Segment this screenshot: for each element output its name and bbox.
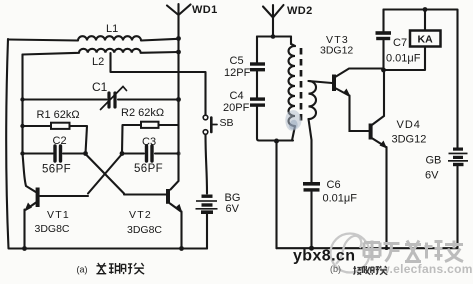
svg-text:3DG8C: 3DG8C [127, 224, 162, 236]
svg-text:0.01μF: 0.01μF [323, 193, 358, 205]
svg-text:0.01μF: 0.01μF [386, 53, 421, 65]
svg-text:C7: C7 [393, 37, 407, 49]
svg-text:56PF: 56PF [134, 163, 163, 175]
svg-text:R2 62kΩ: R2 62kΩ [121, 107, 164, 119]
svg-text:C5: C5 [230, 55, 244, 67]
svg-text:6V: 6V [226, 203, 240, 215]
svg-text:C1: C1 [92, 80, 108, 94]
svg-text:C6: C6 [327, 179, 341, 191]
svg-text:SB: SB [220, 117, 234, 129]
svg-text:WD1: WD1 [192, 4, 218, 16]
svg-text:VT2: VT2 [129, 209, 152, 221]
svg-text:3DG8C: 3DG8C [35, 223, 70, 235]
svg-text:ybx8.cn: ybx8.cn [293, 248, 355, 265]
svg-text:WD2: WD2 [287, 5, 313, 17]
svg-text:C4: C4 [230, 90, 244, 102]
svg-text:3DG12: 3DG12 [392, 134, 427, 146]
svg-text:KA: KA [418, 34, 434, 46]
svg-text:6V: 6V [425, 170, 439, 182]
svg-text:12PF: 12PF [224, 67, 251, 79]
svg-text:L1: L1 [106, 23, 118, 35]
svg-text:56PF: 56PF [42, 164, 71, 176]
svg-text:L2: L2 [92, 56, 104, 68]
svg-text:GB: GB [426, 155, 442, 167]
svg-text:VD4: VD4 [397, 119, 421, 131]
svg-text:(a): (a) [77, 265, 88, 275]
svg-text:VT1: VT1 [47, 209, 70, 221]
svg-text:3DG12: 3DG12 [320, 45, 353, 57]
svg-text:C2: C2 [53, 135, 67, 147]
svg-text:20PF: 20PF [223, 102, 250, 114]
svg-text:(b): (b) [330, 264, 341, 274]
svg-text:C3: C3 [142, 136, 156, 148]
svg-text:R1 62kΩ: R1 62kΩ [37, 109, 80, 121]
